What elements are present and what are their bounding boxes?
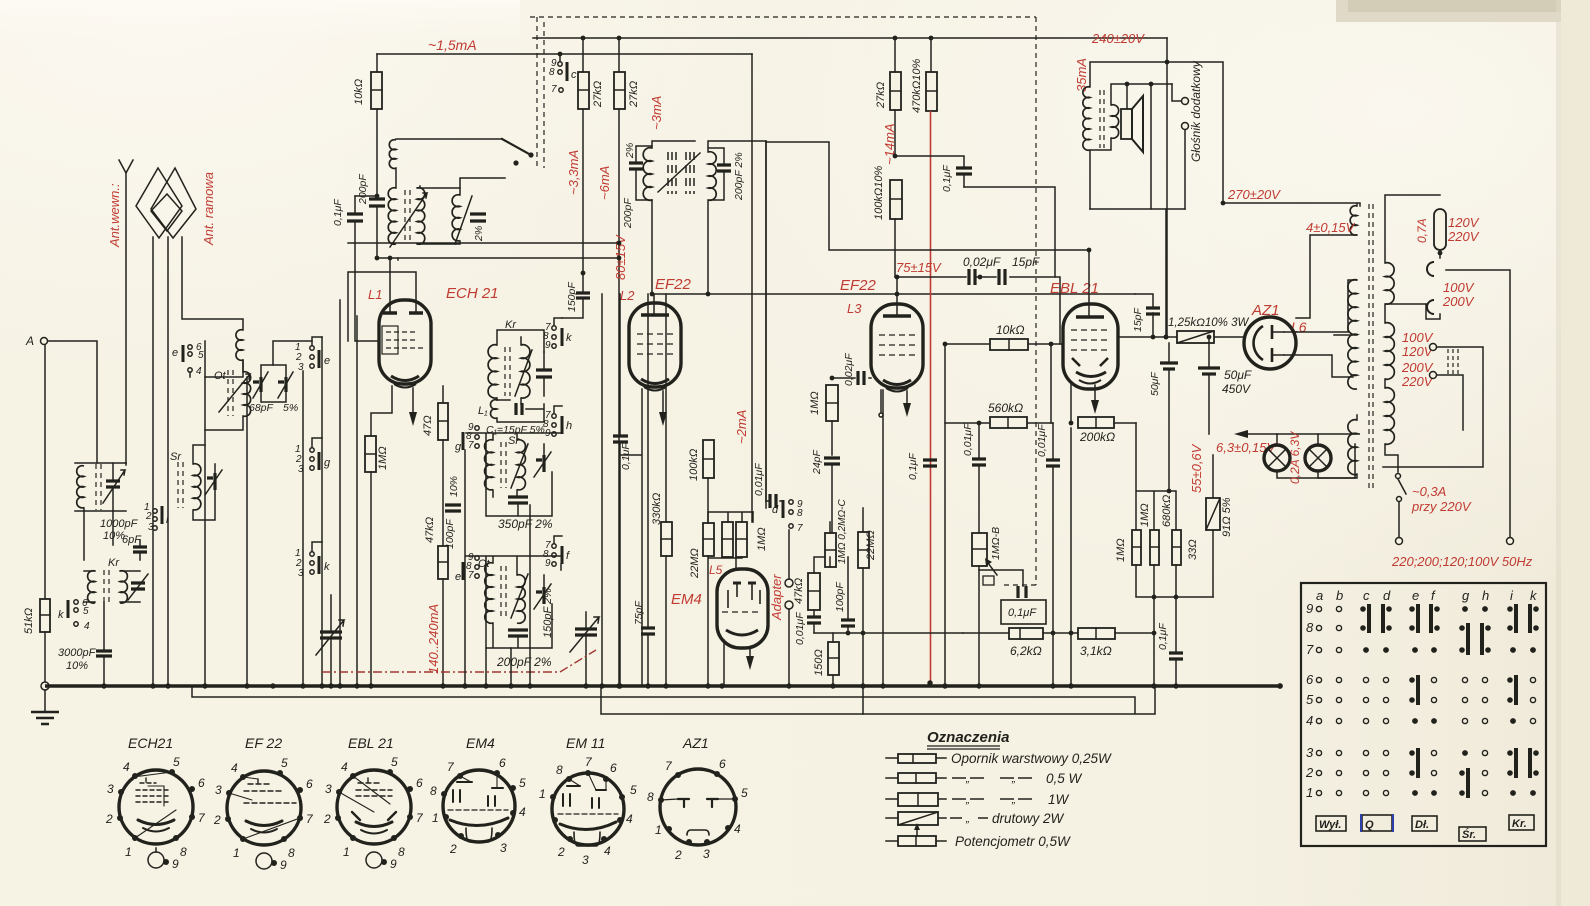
50uF B	[1208, 337, 1210, 434]
svg-text:Sr: Sr	[170, 451, 182, 463]
svg-text:EBL 21: EBL 21	[348, 735, 394, 751]
EM4 resistor cluster	[703, 523, 714, 556]
table label box Kr.	[1509, 815, 1534, 830]
table label box Q	[1361, 814, 1393, 832]
svg-text:1000pF: 1000pF	[100, 518, 139, 530]
svg-text:5: 5	[630, 783, 637, 797]
contact bar column k rows 3-2	[1528, 748, 1539, 778]
svg-text:3: 3	[107, 782, 114, 796]
svg-text:3,1kΩ: 3,1kΩ	[1080, 644, 1112, 658]
svg-text:2: 2	[449, 842, 457, 856]
svg-text:22MΩ: 22MΩ	[689, 548, 701, 579]
svg-text:4: 4	[196, 366, 202, 377]
slugs	[668, 152, 694, 194]
svg-text:8: 8	[288, 846, 295, 860]
svg-text:27kΩ: 27kΩ	[875, 82, 887, 109]
svg-text:9: 9	[172, 857, 179, 871]
svg-text:„: „	[1011, 794, 1016, 806]
svg-text:„: „	[965, 773, 970, 785]
speaker	[1121, 109, 1132, 139]
red 0,1uF cap on red line	[923, 460, 937, 466]
svg-text:2%: 2%	[473, 226, 485, 242]
svg-text:200pF 2%: 200pF 2%	[496, 655, 552, 669]
svg-text:5: 5	[741, 786, 748, 800]
svg-text:2: 2	[674, 848, 682, 862]
svg-text:68pF: 68pF	[249, 402, 274, 414]
svg-text:0,02μF: 0,02μF	[963, 255, 1001, 269]
svg-text:7: 7	[797, 523, 803, 534]
legend row3 1W	[886, 798, 946, 800]
resistor 1M	[365, 436, 376, 472]
svg-text:200pF: 200pF	[622, 198, 634, 229]
svg-text:8: 8	[430, 784, 437, 798]
svg-text:3: 3	[215, 783, 222, 797]
svg-text:5: 5	[83, 606, 89, 617]
svg-text:15pF: 15pF	[1012, 255, 1040, 269]
svg-text:120V: 120V	[1448, 215, 1480, 230]
svg-text:1MΩ-B: 1MΩ-B	[990, 527, 1002, 560]
svg-text:8: 8	[398, 845, 405, 859]
svg-text:0,1μF: 0,1μF	[1157, 623, 1169, 650]
svg-text:140..240mA: 140..240mA	[426, 604, 441, 674]
svg-text:0,1μF: 0,1μF	[941, 165, 953, 192]
svg-text:8: 8	[797, 508, 803, 519]
svg-text:3: 3	[325, 782, 332, 796]
resistor 27k no2	[614, 72, 625, 109]
resistor 51k	[40, 599, 50, 632]
150 ohm	[828, 642, 839, 675]
table column letters a-k	[1316, 588, 1538, 603]
svg-text:EM4: EM4	[671, 591, 702, 608]
svg-text:1MΩ: 1MΩ	[1115, 538, 1127, 562]
svg-text:h: h	[1482, 588, 1489, 603]
main ground bus	[45, 684, 1280, 687]
svg-text:g: g	[324, 457, 331, 469]
contact bar column c rows 9-8	[1360, 604, 1371, 633]
svg-text:1MΩ: 1MΩ	[756, 527, 768, 551]
svg-text:1: 1	[655, 823, 662, 837]
svg-text:e: e	[455, 571, 461, 583]
svg-text:4: 4	[734, 822, 741, 836]
0,3A switch	[1396, 474, 1401, 479]
resistor 27k no1	[578, 72, 589, 109]
svg-text:6: 6	[499, 756, 506, 770]
svg-text:1: 1	[539, 787, 546, 801]
svg-text:0,5 W: 0,5 W	[1046, 771, 1083, 786]
svg-text:A: A	[25, 334, 34, 348]
svg-text:4: 4	[123, 760, 130, 774]
svg-text:c: c	[1363, 588, 1370, 603]
verticals	[751, 54, 753, 522]
svg-text:~6mA: ~6mA	[597, 166, 612, 200]
svg-text:10kΩ: 10kΩ	[996, 323, 1024, 337]
svg-text:L₁: L₁	[478, 405, 488, 417]
AZ1 to transformer	[1284, 280, 1357, 377]
svg-text:7: 7	[468, 440, 474, 451]
svg-text:8: 8	[180, 845, 187, 859]
resistor 560k	[945, 422, 1053, 424]
svg-text:2: 2	[145, 511, 152, 522]
loop antenna diamond 1	[136, 168, 182, 238]
svg-text:EM4: EM4	[466, 735, 495, 751]
svg-text:5: 5	[198, 350, 204, 361]
svg-text:~3,3mA: ~3,3mA	[566, 150, 581, 195]
svg-text:27kΩ: 27kΩ	[628, 81, 640, 108]
svg-text:5: 5	[1306, 692, 1314, 707]
svg-text:10kΩ: 10kΩ	[353, 79, 365, 105]
91 ohm drutowy	[1212, 455, 1214, 597]
svg-text:100V: 100V	[1443, 280, 1475, 295]
svg-text:270±20V: 270±20V	[1227, 187, 1281, 202]
svg-text:k: k	[566, 332, 572, 344]
svg-text:1MΩ: 1MΩ	[377, 446, 389, 470]
svg-text:3: 3	[582, 853, 589, 867]
svg-text:100kΩ10%: 100kΩ10%	[873, 166, 885, 220]
svg-text:55±0,6V: 55±0,6V	[1189, 443, 1204, 493]
resistor 3,1k	[1078, 628, 1115, 639]
svg-text:k: k	[58, 609, 64, 621]
22M second	[858, 532, 869, 568]
svg-text:8: 8	[549, 67, 555, 78]
svg-text:przy 220V: przy 220V	[1411, 499, 1472, 514]
transformer bottoms down	[84, 508, 113, 560]
grid cap 0,02uF	[832, 377, 871, 379]
grid line y344	[945, 343, 1063, 345]
svg-text:6: 6	[198, 776, 205, 790]
svg-text:b: b	[1336, 588, 1343, 603]
legend row5 potencjometr	[886, 840, 946, 842]
contact bar column e rows 9-8	[1409, 604, 1420, 633]
resistor 10k	[990, 339, 1028, 350]
0,1uF	[1169, 653, 1183, 659]
table row numbers 9-1	[1305, 601, 1314, 800]
svg-text:91Ω 5%: 91Ω 5%	[1221, 497, 1233, 537]
antenna input transformer	[75, 463, 126, 511]
svg-text:4: 4	[1306, 713, 1313, 728]
svg-text:6: 6	[416, 776, 423, 790]
misc verticals	[753, 142, 766, 522]
contact bar column d rows 9-8	[1381, 604, 1392, 633]
plate line y337 + 1,25k	[1118, 336, 1244, 338]
svg-text:~1,5mA: ~1,5mA	[428, 37, 477, 53]
coil C	[452, 195, 460, 241]
svg-text:Potencjometr 0,5W: Potencjometr 0,5W	[955, 834, 1071, 849]
svg-text:EF22: EF22	[840, 277, 877, 294]
svg-text:150Ω: 150Ω	[813, 649, 825, 676]
caps 0,01uF x2	[978, 423, 980, 458]
svg-text:220V: 220V	[1447, 229, 1480, 244]
transformer	[1369, 204, 1373, 490]
contact bar column i rows 3-2	[1507, 748, 1518, 778]
svg-text:4: 4	[341, 760, 348, 774]
svg-text:Śr.: Śr.	[1462, 828, 1476, 841]
svg-text:75pF: 75pF	[633, 600, 645, 625]
svg-text:1: 1	[432, 811, 439, 825]
svg-text:4: 4	[519, 805, 526, 819]
svg-text:7: 7	[468, 570, 474, 581]
svg-text:470kΩ10%: 470kΩ10%	[911, 59, 923, 113]
svg-text:1W: 1W	[1048, 792, 1070, 807]
potentiometer 1M-B (volume)	[978, 466, 980, 533]
svg-text:0,1μF: 0,1μF	[907, 453, 919, 480]
table label box Śr.	[1459, 827, 1486, 841]
svg-text:~0,3A: ~0,3A	[1412, 484, 1446, 499]
svg-text:L2: L2	[620, 288, 635, 303]
svg-text:8: 8	[556, 763, 563, 777]
svg-text:2: 2	[1305, 765, 1314, 780]
svg-text:75±15V: 75±15V	[896, 260, 942, 275]
svg-text:200pF 2%: 200pF 2%	[733, 152, 745, 201]
trimmers 68pF	[253, 377, 261, 392]
contact bar column g rows 8-7	[1459, 623, 1470, 655]
svg-text:4: 4	[626, 812, 633, 826]
y142 link and EBL21 feed	[766, 142, 1089, 250]
svg-text:350pF 2%: 350pF 2%	[498, 517, 553, 531]
resistor 470k	[926, 72, 937, 111]
svg-text:1MΩ 0,2MΩ-C: 1MΩ 0,2MΩ-C	[837, 499, 848, 564]
svg-text:a: a	[1316, 588, 1323, 603]
svg-text:Kr: Kr	[108, 557, 120, 569]
contact bar column i rows 9-8	[1507, 604, 1518, 633]
svg-text:g: g	[455, 441, 462, 453]
svg-text:5: 5	[173, 755, 180, 769]
svg-text:AZ1: AZ1	[682, 735, 709, 751]
red traced wire	[930, 111, 932, 683]
lamps	[1246, 433, 1360, 435]
table pin dot grid	[1316, 606, 1536, 796]
svg-text:EF22: EF22	[655, 276, 692, 293]
band switch arm	[502, 139, 531, 155]
vertical wires to bus	[321, 337, 323, 686]
legend row2 0,5W	[886, 777, 946, 779]
svg-text:2: 2	[213, 813, 221, 827]
input IF transformer coil B	[388, 188, 396, 245]
svg-text:Dł.: Dł.	[1415, 819, 1429, 831]
svg-text:~14mA: ~14mA	[882, 123, 897, 165]
long mid horizontal y294	[652, 293, 1135, 295]
loop antenna diamond 2	[151, 168, 196, 238]
svg-text:1: 1	[233, 846, 240, 860]
y633 wire	[814, 632, 963, 634]
contact bar column k rows 9-8	[1528, 604, 1539, 633]
svg-text:450V: 450V	[1222, 382, 1251, 396]
svg-text:6,2kΩ: 6,2kΩ	[1010, 644, 1042, 658]
svg-text:200V: 200V	[1442, 294, 1475, 309]
long verticals to bus	[204, 341, 206, 686]
svg-text:6: 6	[719, 757, 726, 771]
wire A down	[44, 345, 46, 599]
svg-text:Kr.: Kr.	[1512, 818, 1527, 830]
svg-text:7: 7	[551, 84, 557, 95]
svg-text:0,1μF: 0,1μF	[620, 443, 632, 470]
svg-text:220V: 220V	[1401, 374, 1434, 389]
capacitor block 0,1uF box	[979, 570, 1023, 586]
resistor 6,2k	[963, 632, 1009, 634]
wire top rail y54	[377, 53, 752, 55]
EF22 L2 tube	[629, 303, 681, 387]
svg-text:5: 5	[391, 755, 398, 769]
wire right diamond to coil	[182, 237, 243, 330]
svg-text:6: 6	[1306, 672, 1314, 687]
svg-text:Adapter: Adapter	[769, 574, 784, 621]
svg-text:1MΩ: 1MΩ	[809, 391, 821, 415]
resistor 10k	[371, 72, 382, 109]
svg-text:EBL 21: EBL 21	[1050, 280, 1099, 297]
svg-text:680kΩ: 680kΩ	[1161, 495, 1173, 527]
svg-text:0,2A 6,3V: 0,2A 6,3V	[1288, 431, 1302, 484]
svg-text:8: 8	[1306, 620, 1314, 635]
svg-text:drutowy 2W: drutowy 2W	[992, 811, 1065, 826]
svg-text:10%: 10%	[448, 476, 460, 497]
0,01uF series	[766, 500, 783, 502]
svg-text:2: 2	[105, 812, 113, 826]
y277 wire with caps 0,02 15pF	[895, 277, 1060, 344]
coil A top	[389, 140, 396, 169]
right column resistors	[1136, 423, 1176, 530]
svg-text:5: 5	[281, 756, 288, 770]
svg-text:Q: Q	[1365, 819, 1374, 831]
svg-text:Wył.: Wył.	[1319, 819, 1341, 831]
svg-text:9: 9	[545, 558, 551, 569]
svg-text:0,01μF: 0,01μF	[753, 463, 765, 496]
EF22 L3 tube	[871, 304, 923, 388]
svg-text:47kΩ: 47kΩ	[793, 578, 805, 604]
svg-text:8: 8	[647, 790, 654, 804]
svg-text:1: 1	[125, 845, 132, 859]
table label box Wył.	[1316, 816, 1346, 831]
svg-text:0,7A: 0,7A	[1415, 218, 1429, 243]
gang dash-dot link	[322, 650, 596, 672]
svg-text:33Ω: 33Ω	[1187, 539, 1199, 560]
svg-text:k: k	[324, 561, 330, 573]
output transformer	[1083, 87, 1090, 151]
wire y243	[348, 242, 619, 244]
fuse	[1434, 209, 1446, 250]
svg-text:3000pF: 3000pF	[58, 647, 97, 659]
svg-text:47kΩ: 47kΩ	[424, 517, 436, 543]
contact bar column f rows 9-8	[1429, 604, 1440, 633]
antenna mast wire	[125, 173, 127, 463]
svg-text:3: 3	[703, 847, 710, 861]
svg-text:27kΩ: 27kΩ	[592, 81, 604, 108]
svg-text:Sr: Sr	[508, 435, 520, 447]
table label box Dł.	[1412, 816, 1437, 831]
svg-text:0,1μF: 0,1μF	[332, 199, 344, 226]
svg-text:0,1μF: 0,1μF	[1008, 607, 1037, 619]
node y156 to 0,1uF	[895, 156, 964, 187]
svg-text:24pF: 24pF	[811, 449, 823, 475]
svg-text:330kΩ: 330kΩ	[651, 493, 663, 525]
svg-text:c: c	[571, 69, 577, 81]
svg-text:200pF: 200pF	[357, 174, 369, 205]
svg-text:4: 4	[84, 621, 90, 632]
50uF A	[1168, 343, 1170, 491]
svg-text:~3mA: ~3mA	[649, 96, 664, 130]
svg-text:1: 1	[343, 845, 350, 859]
svg-text:7: 7	[1306, 642, 1314, 657]
svg-text:1: 1	[1306, 785, 1313, 800]
svg-text:6pF: 6pF	[122, 534, 142, 546]
svg-text:ECH 21: ECH 21	[446, 285, 499, 302]
svg-text:e: e	[172, 347, 178, 359]
contact bar column i rows 6-5	[1507, 675, 1518, 705]
svg-text:6: 6	[610, 761, 617, 775]
svg-text:Ant.wewn.:: Ant.wewn.:	[107, 183, 122, 248]
svg-text:„: „	[965, 794, 970, 806]
svg-text:Kr: Kr	[505, 319, 517, 331]
1M 0,2M-C	[825, 533, 836, 567]
svg-text:10%: 10%	[66, 660, 88, 672]
junction dots on bus	[101, 680, 1283, 689]
loop antenna down wires	[152, 237, 154, 686]
svg-text:e: e	[324, 355, 330, 367]
loop antenna inner diamond	[151, 194, 182, 231]
15pF	[1135, 294, 1153, 337]
svg-text:5%: 5%	[283, 402, 298, 414]
variable cap left gang	[320, 632, 342, 638]
switch contact table frame	[1301, 583, 1546, 846]
svg-text:560kΩ: 560kΩ	[988, 401, 1023, 415]
svg-text:2%: 2%	[624, 143, 636, 159]
svg-text:9: 9	[390, 857, 397, 871]
bus end open circle	[41, 682, 49, 690]
resistor 1M grid	[826, 385, 838, 421]
svg-text:200V: 200V	[1401, 360, 1434, 375]
svg-text:L1: L1	[368, 287, 382, 302]
svg-text:200kΩ: 200kΩ	[1079, 430, 1115, 444]
svg-text:2: 2	[323, 812, 331, 826]
resistor 27k top	[890, 72, 901, 110]
contact bar column e rows 3-2	[1409, 748, 1420, 778]
svg-text:5: 5	[519, 776, 526, 790]
resistor 47 ohm	[442, 386, 444, 403]
svg-text:6: 6	[306, 777, 313, 791]
svg-text:0,01μF: 0,01μF	[794, 612, 806, 645]
T2 right	[708, 152, 716, 201]
antenna fork	[119, 160, 133, 173]
svg-text:L3: L3	[847, 301, 862, 316]
svg-text:Oznaczenia: Oznaczenia	[927, 729, 1010, 746]
svg-text:15pF: 15pF	[1132, 307, 1144, 332]
legend row4 drutowy 2W	[886, 817, 946, 819]
svg-text:Ot: Ot	[214, 370, 227, 382]
resistor 47k	[438, 546, 448, 579]
svg-text:„: „	[965, 813, 970, 825]
extra speaker terminals	[1182, 98, 1189, 105]
variable cap right gang	[575, 629, 597, 635]
svg-text:100pF: 100pF	[834, 582, 846, 612]
svg-text:3: 3	[1306, 745, 1314, 760]
svg-text:e: e	[1412, 588, 1419, 603]
svg-text:4: 4	[604, 844, 611, 858]
svg-text:220;200;120;100V 50Hz: 220;200;120;100V 50Hz	[1391, 554, 1533, 569]
svg-text:0,01μF: 0,01μF	[962, 423, 974, 456]
below-bus return lines	[192, 686, 1155, 714]
contact bar column e rows 6-5	[1409, 675, 1420, 705]
svg-text:1MΩ: 1MΩ	[1139, 503, 1151, 527]
svg-text:50μF: 50μF	[1149, 372, 1161, 396]
svg-text:0,02μF: 0,02μF	[843, 353, 855, 386]
svg-text:~2mA: ~2mA	[734, 410, 749, 444]
ground	[44, 690, 46, 711]
svg-text:47Ω: 47Ω	[422, 415, 434, 436]
200k	[1078, 417, 1114, 428]
contact bar column g rows 2-1	[1459, 768, 1470, 798]
svg-text:100pF: 100pF	[444, 519, 456, 549]
svg-text:4: 4	[231, 761, 238, 775]
svg-text:1,25kΩ10% 3W: 1,25kΩ10% 3W	[1168, 317, 1249, 329]
svg-text:100V: 100V	[1402, 330, 1434, 345]
